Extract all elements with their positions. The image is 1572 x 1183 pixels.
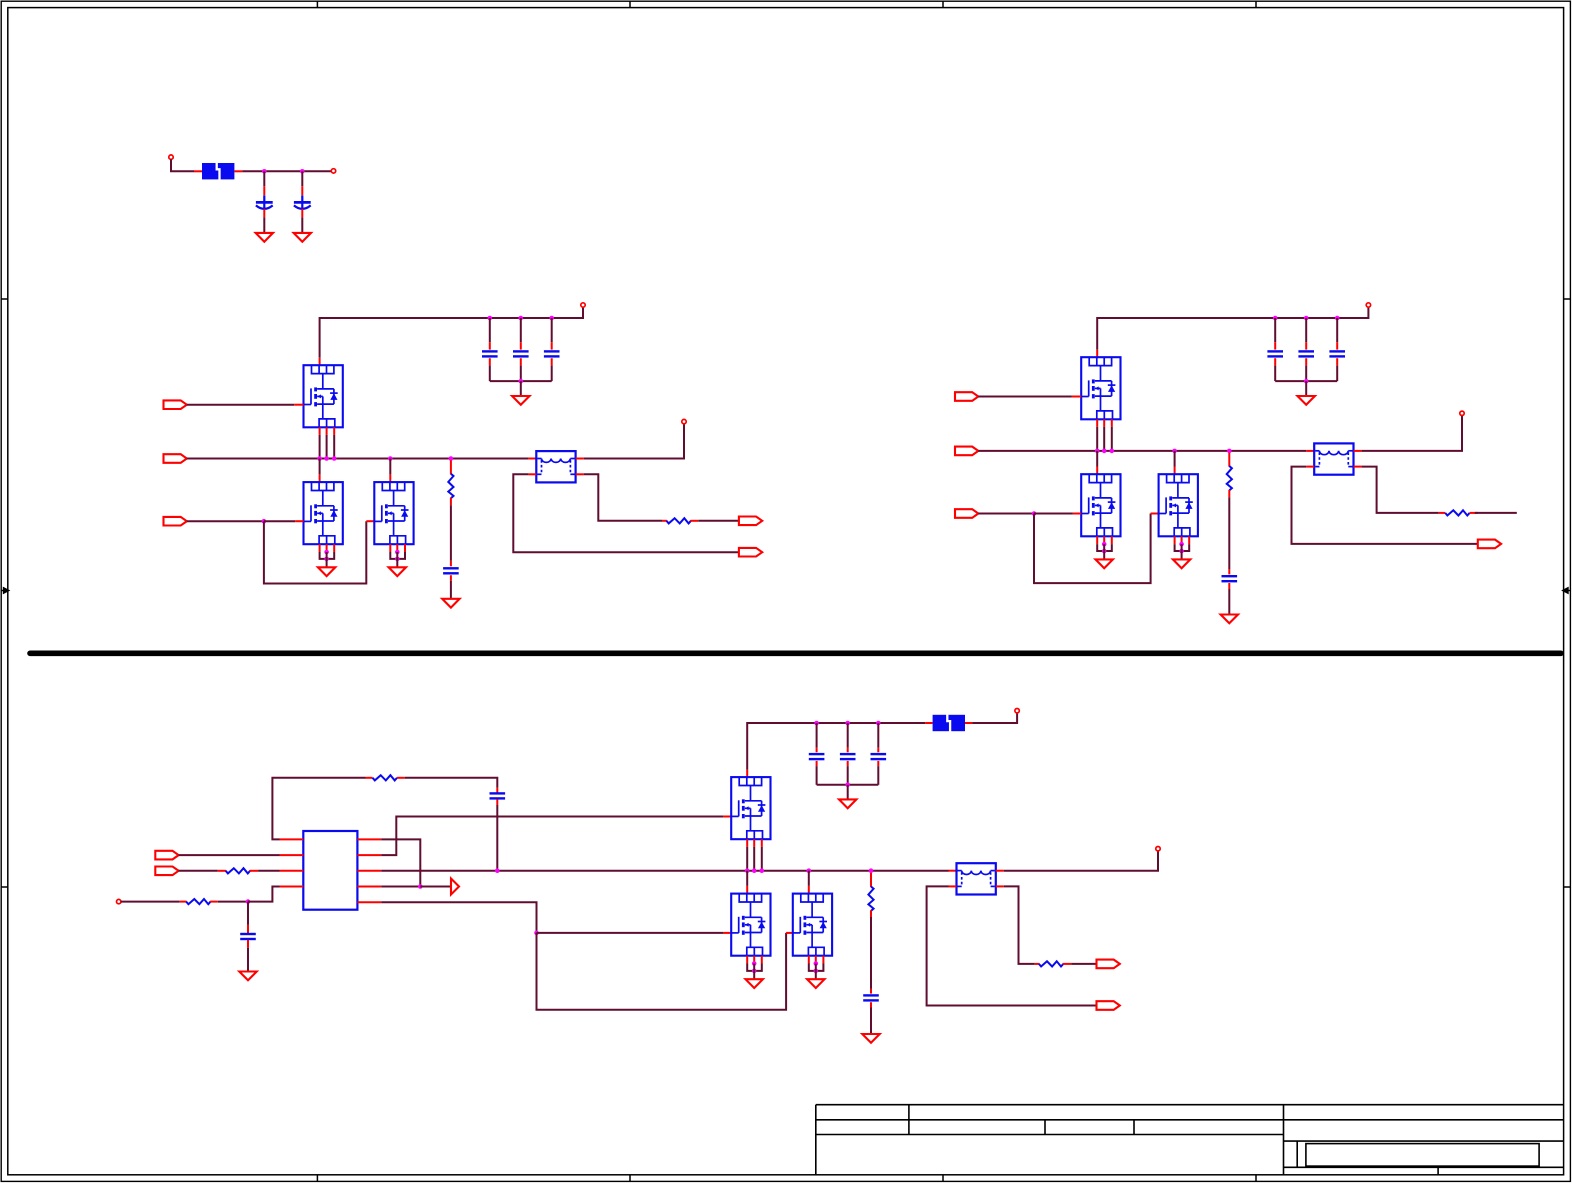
junction <box>1095 449 1100 454</box>
junction <box>814 961 819 966</box>
pin of C9 <box>1336 342 1338 349</box>
wire pin5 to off-page arrow <box>420 886 450 888</box>
pin 2 of U1 <box>280 854 304 856</box>
wire VSNS to R6 <box>179 870 218 872</box>
pin of R2 <box>662 520 667 522</box>
wire C12 to ground <box>247 948 249 972</box>
ferrite bead FB2 <box>933 715 965 732</box>
wire T2 to R4 <box>1362 467 1439 513</box>
source pin of Q7 <box>761 839 763 847</box>
gate pin of Q1 <box>294 404 303 406</box>
pin of C15 <box>877 748 879 753</box>
transformer T2 <box>1314 443 1353 474</box>
wire from IN terminal <box>171 159 194 171</box>
pin of C8 <box>1305 358 1307 365</box>
junction <box>1335 316 1340 321</box>
pin of R8 <box>870 873 872 887</box>
gate pin of Q4 <box>1072 396 1081 398</box>
capacitor C14 <box>840 754 856 759</box>
wire SW-B rail <box>978 450 1306 452</box>
drain pin of Q4 <box>1096 350 1098 357</box>
wire Q8 source to ground <box>753 964 755 980</box>
wire SW-C to Q8 drain <box>746 871 748 886</box>
port CS+A <box>739 517 762 526</box>
section divider bar <box>30 650 1561 656</box>
title block <box>816 1105 1564 1175</box>
cap bank ground bus <box>817 784 879 786</box>
wire LDRV-C to Q9 gate <box>537 933 787 1010</box>
port VSNS <box>155 867 178 876</box>
wire HDRV-A to Q1 gate <box>187 404 294 406</box>
pin 6 of U1 <box>357 870 381 872</box>
ground <box>807 979 824 988</box>
transformer T1 <box>536 451 575 482</box>
pin 2 of T2 <box>1354 450 1362 452</box>
pin of FB2 <box>965 722 972 724</box>
wire to C8 <box>1305 318 1307 342</box>
wire T2 to SW-B terminal <box>1362 416 1462 451</box>
capacitor C7 <box>1267 351 1283 356</box>
source pin of Q9 <box>815 956 817 964</box>
wire to C9 <box>1336 318 1338 342</box>
junction <box>324 456 329 461</box>
junction <box>262 519 267 524</box>
source pin of Q2 <box>319 544 321 552</box>
wire C2 to ground <box>301 217 303 233</box>
pin 3 of T3 <box>949 885 957 887</box>
source pin of Q6 <box>1181 536 1183 544</box>
source pin of Q4 <box>1096 419 1098 427</box>
wire SW-B to Q6 drain <box>1174 451 1176 467</box>
junction <box>1179 542 1184 547</box>
source pin of Q7 <box>746 839 748 847</box>
source pin of Q5 <box>1111 536 1113 544</box>
source pin of Q8 <box>761 956 763 964</box>
source pin of Q5 <box>1096 536 1098 544</box>
wire U1 pin8 to pin5 node <box>381 839 420 886</box>
resistor R5 <box>373 775 397 780</box>
wire to C13 <box>816 723 818 748</box>
capacitor C10 <box>1222 576 1238 581</box>
drain pin of Q9 <box>808 886 810 894</box>
pin of C2 <box>301 186 303 195</box>
wire ISET terminal to R7 <box>121 901 180 903</box>
wire Q9 source to ground <box>815 964 817 980</box>
junction <box>332 456 337 461</box>
terminal <box>169 155 173 159</box>
transistor Q9 (N-MOSFET package) <box>793 894 832 956</box>
pin of C7 <box>1274 342 1276 349</box>
wire C3 to bus <box>489 366 491 382</box>
wire SW-A to Q2 drain <box>319 459 321 475</box>
source pin of Q3 <box>404 544 406 552</box>
source pin of Q8 <box>746 956 748 964</box>
pin of C11 <box>496 799 498 805</box>
wire U1 pin7 to Q7 gate <box>381 817 723 856</box>
wire LDRV-B to Q6 gate <box>1034 514 1151 584</box>
port CS+C <box>1097 960 1120 969</box>
pin 1 of T2 <box>1306 450 1314 452</box>
wire to C15 <box>877 723 879 748</box>
capacitor C8 <box>1298 351 1314 356</box>
wire to C5 <box>551 318 553 342</box>
wire bus to ground <box>520 381 522 396</box>
pin of R5 <box>397 777 405 779</box>
capacitor C13 <box>809 754 825 759</box>
pin of C16 <box>870 989 872 994</box>
pin of R4 <box>1470 512 1478 514</box>
junction <box>395 557 400 562</box>
source pin of Q3 <box>389 544 391 552</box>
wire to C4 <box>520 318 522 342</box>
ground <box>862 1034 879 1043</box>
wire to C7 <box>1274 318 1276 342</box>
wire C6 to ground <box>450 581 452 599</box>
pin of C3 <box>489 342 491 349</box>
pin of R4 <box>1439 512 1445 514</box>
ground <box>442 599 459 608</box>
port CS-C <box>1097 1001 1120 1010</box>
wire SW-C rail <box>381 870 948 872</box>
wire T2 to CS-B port <box>1292 467 1478 544</box>
off-page arrow <box>451 879 459 895</box>
wire C15 to bus <box>877 766 879 785</box>
source pin of Q8 <box>753 956 755 964</box>
capacitor C4 <box>513 351 529 356</box>
junction <box>519 379 524 384</box>
resistor R9 <box>1039 961 1063 966</box>
Q8 source bus <box>747 964 762 971</box>
pin of C13 <box>816 761 818 766</box>
wire R5 to C11 <box>405 778 497 788</box>
port SW-IN-B <box>955 447 978 456</box>
pin of R8 <box>870 910 872 917</box>
capacitor C9 <box>1329 351 1345 356</box>
wire U1 pin1 to feedback R5 <box>272 778 365 840</box>
wire T3 to CS-C port <box>927 886 1097 1005</box>
wire to C1 <box>263 171 265 186</box>
gate pin of Q7 <box>723 816 731 818</box>
pin of FB2 <box>925 722 932 724</box>
pin of C2 <box>301 209 303 218</box>
drain pin of Q5 <box>1096 467 1098 475</box>
pin of R1 <box>450 498 452 506</box>
pin 3 of U1 <box>280 870 304 872</box>
gate pin of Q5 <box>1073 513 1081 515</box>
junction <box>388 456 393 461</box>
source pin of Q6 <box>1174 536 1176 544</box>
source pin of Q1 <box>326 427 328 435</box>
wire T3 to SW-C terminal <box>1004 851 1158 871</box>
wire LDRV-A to Q2 gate <box>187 520 264 522</box>
pin 5 of U1 <box>357 886 381 888</box>
pin of C12 <box>247 940 249 948</box>
wire C13 to bus <box>816 766 818 785</box>
wire C5 to bus <box>551 366 553 382</box>
junction <box>262 169 267 174</box>
junction <box>549 316 554 321</box>
pin of R1 <box>450 460 452 474</box>
wire SW-A to Q3 drain <box>389 459 391 475</box>
junction <box>246 899 251 904</box>
IC U1 (controller) <box>303 831 357 910</box>
source pin of Q9 <box>808 956 810 964</box>
transistor Q1 (N-MOSFET package) <box>304 365 343 427</box>
junction <box>1304 316 1309 321</box>
port CS-B <box>1478 540 1501 549</box>
terminal <box>682 419 686 423</box>
wire C8 to bus <box>1305 366 1307 382</box>
drain pin of Q6 <box>1174 467 1176 475</box>
pin of R3 <box>1228 453 1230 467</box>
gate pin of Q6 <box>1151 513 1159 515</box>
wire Q7 source to SW-C rail <box>746 847 748 871</box>
terminal <box>117 899 121 903</box>
pin of R9 <box>1035 963 1040 965</box>
junction <box>1032 511 1037 516</box>
transistor Q4 (N-MOSFET package) <box>1081 357 1120 419</box>
pin of C14 <box>847 748 849 753</box>
ground <box>1221 615 1238 624</box>
source pin of Q7 <box>753 839 755 847</box>
junction <box>488 316 493 321</box>
transformer T3 <box>957 863 996 894</box>
wire to C3 <box>489 318 491 342</box>
wire T1 to R2 <box>584 474 663 521</box>
pin of C16 <box>870 1002 872 1007</box>
Q3 source bus <box>390 552 405 559</box>
pin of R7 <box>210 901 218 903</box>
pin of C9 <box>1336 358 1338 365</box>
Q6 source bus <box>1175 544 1190 551</box>
junction <box>1102 549 1107 554</box>
pin 8 of U1 <box>357 838 381 840</box>
ground <box>839 799 856 808</box>
wire to Q2 gate pin <box>264 520 295 522</box>
ground <box>294 233 311 242</box>
port LDRV-A <box>164 517 187 526</box>
junction <box>449 456 454 461</box>
pin 4 of T3 <box>996 885 1004 887</box>
source pin of Q4 <box>1111 419 1113 427</box>
pin of C4 <box>520 358 522 365</box>
wire C10 to ground <box>1228 589 1230 615</box>
wire Q5 source to ground <box>1103 544 1105 559</box>
pin of R7 <box>180 901 187 903</box>
pin 9 of U1 <box>357 901 381 903</box>
wire Q2 source to ground <box>326 552 328 567</box>
pin of FB1 <box>234 170 242 172</box>
wire R2 to CS+A port <box>698 520 739 522</box>
pin of R6 <box>250 870 259 872</box>
junction <box>1102 542 1107 547</box>
pin of R2 <box>690 520 698 522</box>
Q9 source bus <box>809 964 824 971</box>
capacitor C1 <box>256 195 273 209</box>
pin of C6 <box>450 575 452 581</box>
wire HDRV-B to Q4 gate <box>978 396 1072 398</box>
wire R6 to U1 pin3 <box>258 870 279 872</box>
resistor R3 <box>1227 466 1232 490</box>
wire EN port to U1 pin2 <box>179 854 280 856</box>
gate pin of Q9 <box>786 932 793 934</box>
wire Q7 source to SW-C rail <box>753 847 755 871</box>
junction <box>869 868 874 873</box>
pin 2 of T3 <box>996 870 1004 872</box>
junction <box>814 721 819 726</box>
wire R8 to C16 <box>870 917 872 989</box>
capacitor C15 <box>871 754 887 759</box>
ground <box>239 972 256 981</box>
pin of C5 <box>551 358 553 365</box>
junction <box>495 868 500 873</box>
source pin of Q6 <box>1188 536 1190 544</box>
junction <box>324 557 329 562</box>
junction <box>1110 449 1115 454</box>
transistor Q2 (N-MOSFET package) <box>304 482 343 544</box>
wire VIN rail phase B <box>1097 307 1368 350</box>
junction <box>1227 449 1232 454</box>
junction <box>845 721 850 726</box>
junction <box>807 868 812 873</box>
pin 1 of T1 <box>528 458 536 460</box>
junction <box>1304 379 1309 384</box>
pin of C7 <box>1274 358 1276 365</box>
capacitor C16 <box>863 995 879 1000</box>
Q2 source bus <box>320 552 335 559</box>
wire Q1 source to SW-A rail <box>333 435 335 459</box>
pin 4 of T2 <box>1354 466 1362 468</box>
wire VIN rail phase A <box>320 307 583 358</box>
wire Q1 source to SW-A rail <box>319 435 321 459</box>
wire Q7 source to SW-C rail <box>761 847 763 871</box>
wire C16 to ground <box>870 1008 872 1035</box>
drain pin of Q8 <box>746 886 748 894</box>
ground <box>1096 559 1113 568</box>
wire LDRV-A to Q3 gate <box>264 521 366 583</box>
junction <box>876 721 881 726</box>
source pin of Q2 <box>326 544 328 552</box>
wire bus to ground <box>1305 381 1307 396</box>
transistor Q3 (N-MOSFET package) <box>374 482 413 544</box>
drain pin of Q3 <box>389 474 391 482</box>
terminal <box>1460 411 1464 415</box>
wire U1 pin9 to LDRV-C <box>381 902 536 933</box>
wire R1 to C6 <box>450 505 452 561</box>
gate pin of Q8 <box>723 932 731 934</box>
terminal <box>581 303 585 307</box>
pin of FB1 <box>194 170 202 172</box>
pin 4 of T1 <box>576 473 584 475</box>
junction <box>395 550 400 555</box>
pin of C10 <box>1228 583 1230 589</box>
wire T3 to R9 <box>1004 886 1035 964</box>
port SW-IN-A <box>164 454 187 463</box>
gate pin of Q3 <box>366 520 374 522</box>
wire T1 to CS-A port <box>513 474 739 552</box>
pin of C10 <box>1228 569 1230 574</box>
cap bank ground bus <box>1275 380 1337 382</box>
resistor R7 <box>186 899 210 904</box>
wire C1 to ground <box>263 217 265 233</box>
wire SW-C to Q9 drain <box>808 871 810 886</box>
wire Q3 source to ground <box>396 552 398 567</box>
pin of C4 <box>520 342 522 349</box>
capacitor C12 <box>240 934 256 939</box>
wire C11 to COMP rail <box>496 805 498 871</box>
transistor Q5 (N-MOSFET package) <box>1081 474 1120 536</box>
pin 4 of U1 <box>280 886 304 888</box>
border center arrow left <box>1 588 9 593</box>
wire Q1 source to SW-A rail <box>326 435 328 459</box>
port HDRV-A <box>164 400 187 409</box>
wire to C2 <box>301 171 303 186</box>
wire R9 to CS+C port <box>1071 963 1096 965</box>
junction <box>760 868 765 873</box>
source pin of Q1 <box>333 427 335 435</box>
wire R4 to CS+B <box>1475 512 1517 514</box>
pin 3 of T1 <box>528 473 536 475</box>
wire C9 to bus <box>1336 366 1338 382</box>
source pin of Q2 <box>333 544 335 552</box>
ground <box>318 567 335 576</box>
pin of R3 <box>1228 490 1230 498</box>
capacitor C5 <box>544 351 560 356</box>
drain pin of Q7 <box>746 770 748 777</box>
pin of C3 <box>489 358 491 365</box>
drain pin of Q2 <box>319 474 321 482</box>
junction <box>752 868 757 873</box>
pin 2 of T1 <box>576 458 584 460</box>
resistor R6 <box>226 868 250 873</box>
Q5 source bus <box>1097 544 1112 551</box>
wire Q4 source to SW-B rail <box>1096 427 1098 451</box>
junction <box>1273 316 1278 321</box>
pin 1 of U1 <box>280 838 304 840</box>
ground <box>389 567 406 576</box>
pin of C11 <box>496 788 498 793</box>
wire FB1 to OUT terminal <box>242 170 331 172</box>
wire VIN rail phase C <box>747 723 925 770</box>
drain pin of Q1 <box>319 358 321 365</box>
wire C14 to bus <box>847 766 849 785</box>
source pin of Q4 <box>1103 419 1105 427</box>
wire C7 to bus <box>1274 366 1276 382</box>
port EN <box>155 851 178 860</box>
source pin of Q3 <box>396 544 398 552</box>
junction <box>745 868 750 873</box>
junction <box>1102 449 1107 454</box>
pin 7 of U1 <box>357 854 381 856</box>
capacitor C3 <box>482 351 498 356</box>
junction <box>752 961 757 966</box>
junction <box>1179 549 1184 554</box>
junction <box>534 931 539 936</box>
junction <box>814 969 819 974</box>
port LDRV-B <box>955 509 978 518</box>
pin of C14 <box>847 761 849 766</box>
pin of C6 <box>450 561 452 567</box>
wire FB2 to VIN-C terminal <box>972 713 1017 723</box>
wire U1 pin5 <box>381 886 420 888</box>
pin of R6 <box>218 870 226 872</box>
wire C4 to bus <box>520 366 522 382</box>
wire bus to ground <box>847 785 849 800</box>
terminal <box>1366 303 1370 307</box>
gate pin of Q2 <box>295 520 303 522</box>
source pin of Q9 <box>822 956 824 964</box>
junction <box>418 884 423 889</box>
